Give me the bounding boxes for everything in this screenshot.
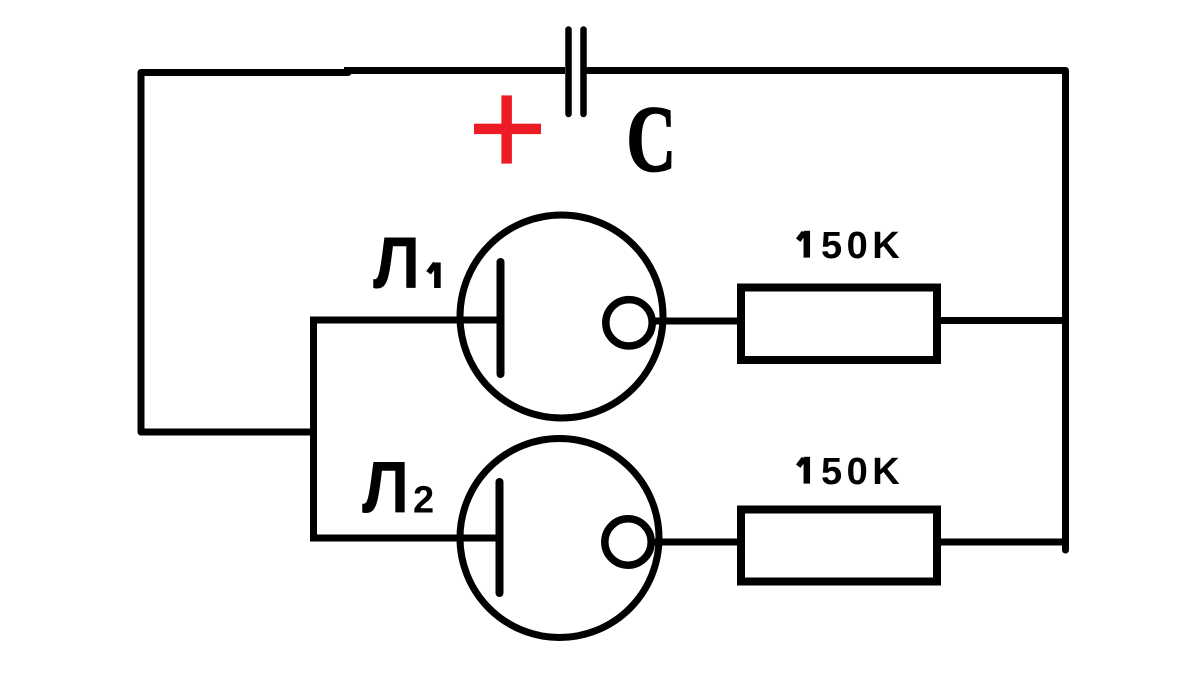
tube L2 anode dot xyxy=(605,519,651,565)
polarity mark + (red) horizontal bar xyxy=(474,124,541,134)
label L1 (tube 1) xyxy=(373,222,420,303)
svg-text:Л: Л xyxy=(362,447,409,528)
label L1 subscript 1 xyxy=(434,263,441,289)
resistor R2 body xyxy=(741,510,937,582)
wire: resistor R1 to right bus xyxy=(941,317,1066,324)
label R2 value digit 1 xyxy=(804,457,811,484)
capacitor C left plate xyxy=(565,30,572,115)
capacitor C right plate xyxy=(580,30,587,115)
svg-text:50K: 50K xyxy=(821,451,904,493)
wire: lamp L2 grid lead xyxy=(310,535,499,542)
polarity mark + (red) vertical bar xyxy=(501,95,512,163)
tube L2 cathode bar xyxy=(496,482,504,593)
tube L2 envelope xyxy=(460,439,659,638)
svg-text:2: 2 xyxy=(413,480,434,522)
wire: anode L1 to resistor R1 xyxy=(652,318,741,325)
wire: anode L2 to resistor R2 xyxy=(651,539,741,546)
resistor R1 body xyxy=(741,288,937,361)
tube L1 cathode bar xyxy=(497,262,505,374)
wire: left loop (top-left bus, left vertical drop, bottom horizontal to junction) xyxy=(141,73,348,433)
tube L1 envelope xyxy=(460,215,663,418)
svg-text:Л: Л xyxy=(373,222,420,303)
svg-text:50K: 50K xyxy=(821,225,904,267)
tube L1 anode dot xyxy=(606,300,652,346)
label L2 (tube 2) xyxy=(362,447,409,528)
wire: top bus segment to capacitor left plate xyxy=(344,67,565,74)
svg-text:C: C xyxy=(627,87,677,191)
wire: lamp L1 grid lead xyxy=(310,317,500,324)
label R1 value digit 1 xyxy=(804,231,811,258)
wire: resistor R2 to right bus xyxy=(941,539,1066,546)
wire: junction riser (inner vertical between lamp leads) xyxy=(310,317,317,542)
label C (capacitor) xyxy=(627,87,677,191)
wire: top bus from capacitor to right corner and right vertical bus xyxy=(588,71,1066,551)
